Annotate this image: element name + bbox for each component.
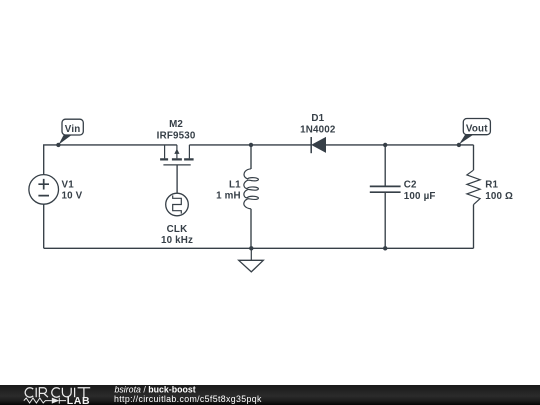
- wire right branch bottom (from R1): [473, 205, 475, 249]
- logo CIRCUIT wordmark: [25, 388, 90, 398]
- label R1 value: [485, 180, 513, 202]
- node L1 top: [249, 143, 253, 147]
- wire M2 gate lead: [176, 165, 178, 196]
- label M2: [157, 119, 196, 141]
- wire C2 bottom lead: [384, 193, 386, 249]
- label L1 value: [216, 180, 241, 202]
- wire C2 top lead: [384, 145, 386, 186]
- diode D1: [311, 137, 325, 153]
- flag Vout: [459, 119, 490, 145]
- inductor L1: [244, 169, 259, 209]
- wire bottom rail: [44, 247, 474, 249]
- resistor R1: [467, 170, 480, 205]
- capacitor C2: [370, 186, 401, 192]
- voltage source V1: [29, 175, 59, 205]
- node ground junction: [249, 246, 253, 250]
- wire diode to output corner: [326, 144, 474, 146]
- svg-text:LAB: LAB: [67, 395, 90, 405]
- flag Vin: [59, 119, 84, 144]
- label D1: [300, 113, 336, 135]
- transistor M2 (PMOS): [160, 145, 194, 165]
- label C2 value: [404, 180, 436, 202]
- label CLK value: [161, 224, 193, 246]
- ground: [239, 248, 264, 272]
- label V1 value: [62, 180, 83, 202]
- node C2 top: [383, 143, 387, 147]
- wire drain rail to diode: [189, 144, 311, 146]
- node C2 bottom: [383, 246, 387, 250]
- logo schematic doodle (resistor + diode): [24, 398, 66, 404]
- wire L1 top lead: [250, 145, 252, 169]
- clock source CLK: [166, 193, 189, 216]
- footer bar: [0, 385, 540, 405]
- node Vin junction: [56, 143, 60, 147]
- wire right branch top (to R1): [473, 145, 475, 170]
- node Vout junction: [457, 143, 461, 147]
- svg-text:http://circuitlab.com/c5f5t8xg: http://circuitlab.com/c5f5t8xg35pqk: [114, 394, 262, 404]
- wire left branch (Vin rail + V1 leads): [44, 145, 177, 248]
- wire L1 bottom lead: [250, 209, 252, 249]
